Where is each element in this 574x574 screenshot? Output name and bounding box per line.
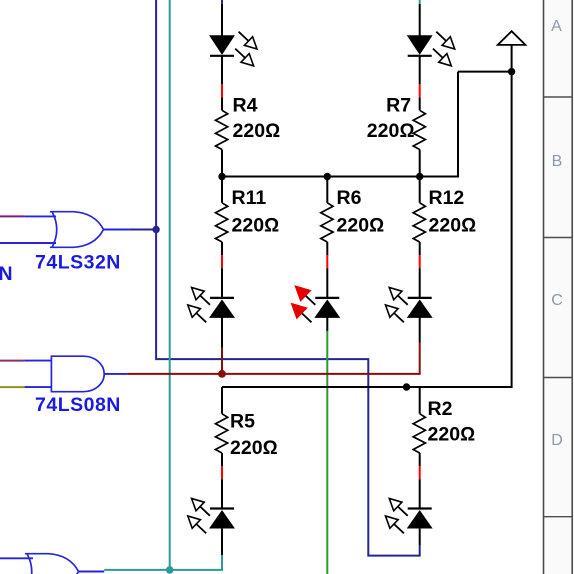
svg-text:B: B xyxy=(552,153,563,170)
svg-text:220Ω: 220Ω xyxy=(337,215,385,237)
svg-text:R11: R11 xyxy=(232,187,267,209)
svg-text:C: C xyxy=(551,292,563,309)
svg-text:R12: R12 xyxy=(429,187,465,209)
svg-text:N: N xyxy=(0,263,13,285)
svg-text:A: A xyxy=(551,18,562,35)
svg-text:220Ω: 220Ω xyxy=(367,120,415,142)
svg-text:74LS32N: 74LS32N xyxy=(35,252,121,274)
svg-text:220Ω: 220Ω xyxy=(232,215,280,237)
svg-text:220Ω: 220Ω xyxy=(233,120,281,142)
svg-text:R6: R6 xyxy=(337,187,362,209)
svg-text:220Ω: 220Ω xyxy=(230,437,278,459)
svg-text:220Ω: 220Ω xyxy=(429,215,477,237)
svg-text:D: D xyxy=(551,432,563,449)
svg-text:R4: R4 xyxy=(233,95,258,117)
svg-text:R7: R7 xyxy=(386,95,411,117)
svg-text:R2: R2 xyxy=(428,398,453,420)
svg-text:220Ω: 220Ω xyxy=(428,424,476,446)
svg-text:74LS08N: 74LS08N xyxy=(35,394,121,416)
svg-text:R5: R5 xyxy=(230,410,255,432)
